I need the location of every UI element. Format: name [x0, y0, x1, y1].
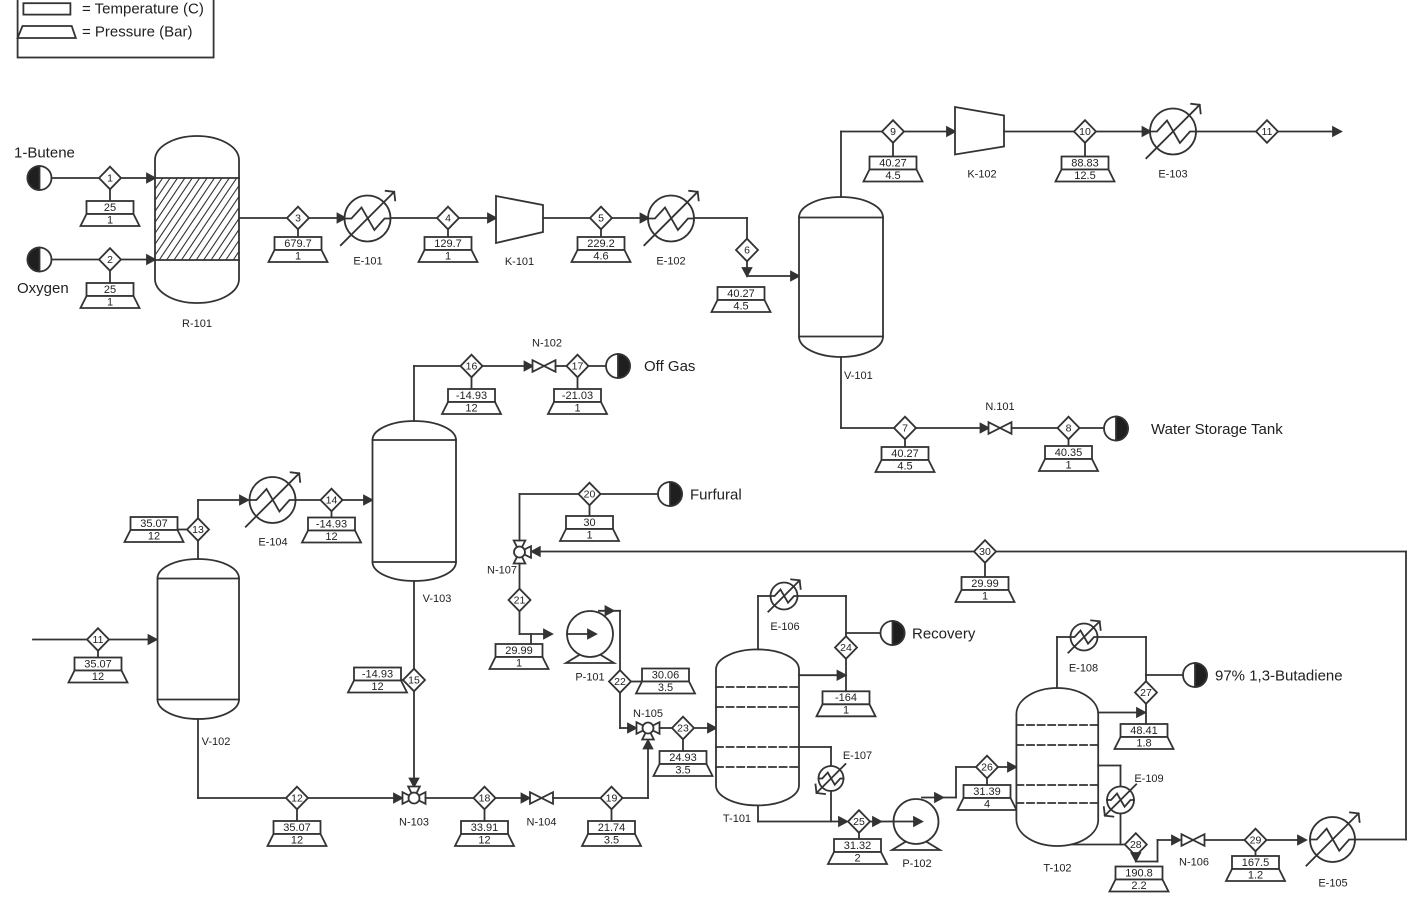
product circle water storage tank	[1104, 417, 1128, 441]
label stream 9	[864, 143, 923, 182]
svg-text:4.5: 4.5	[885, 170, 900, 182]
label E-102	[656, 256, 685, 268]
svg-text:10: 10	[1079, 126, 1091, 138]
label stream 10	[1056, 143, 1115, 182]
svg-text:N-106: N-106	[1179, 857, 1209, 869]
label stream 5	[572, 229, 631, 262]
text Recovery	[912, 626, 976, 643]
svg-text:35.07: 35.07	[140, 518, 168, 530]
svg-text:35.07: 35.07	[84, 658, 112, 670]
stream diamond 14	[321, 489, 343, 512]
stream diamond 22	[609, 670, 631, 693]
label stream 6	[712, 287, 771, 312]
wire N-105 to stream 23	[660, 727, 673, 729]
svg-text:12: 12	[92, 671, 104, 683]
svg-text:V-102: V-102	[202, 736, 231, 748]
svg-text:-14.93: -14.93	[456, 390, 487, 402]
stream diamond 24	[835, 636, 857, 659]
svg-text:12: 12	[291, 793, 303, 805]
label stream 21	[490, 634, 549, 669]
label stream 4	[419, 229, 478, 262]
wire K-101 to stream 5	[543, 217, 591, 219]
wire stream 6 down	[743, 261, 752, 276]
label stream 12	[268, 809, 327, 846]
wire stream 8 to water storage tank	[1079, 427, 1104, 429]
stream diamond 17	[567, 355, 589, 378]
wire N-103 to stream 18	[426, 797, 475, 799]
text Off Gas	[644, 358, 695, 375]
label stream 1	[81, 189, 140, 226]
product circle butadiene	[1183, 663, 1207, 687]
svg-text:2: 2	[107, 254, 113, 266]
svg-text:K-102: K-102	[967, 169, 996, 181]
label stream 15	[348, 668, 407, 693]
svg-text:1.8: 1.8	[1136, 737, 1151, 749]
svg-text:1-Butene: 1-Butene	[14, 145, 75, 162]
stream diamond 23	[672, 717, 694, 740]
stream diamond 25	[848, 810, 870, 833]
heat exchanger E-102	[644, 191, 698, 245]
svg-text:5: 5	[598, 213, 604, 225]
label stream 27	[1115, 724, 1174, 749]
label stream 30	[956, 563, 1015, 603]
label E-107	[843, 750, 872, 762]
svg-text:P-101: P-101	[575, 672, 604, 684]
legend pressure symbol	[18, 26, 76, 38]
stream diamond 4	[437, 207, 459, 230]
label N-106	[1179, 857, 1209, 869]
label stream 24	[817, 691, 876, 716]
wire stream 11 out	[1278, 127, 1342, 136]
wire E-108 to stream 27 line	[1098, 637, 1147, 724]
heat exchanger E-106	[768, 579, 800, 611]
svg-text:31.39: 31.39	[973, 786, 1001, 798]
compressor K-101	[496, 196, 543, 243]
wire stream 25 to P-102	[870, 817, 894, 826]
column T-102	[1016, 688, 1098, 846]
svg-text:V-103: V-103	[423, 593, 452, 605]
label N-102	[532, 338, 562, 350]
label V-103	[423, 593, 452, 605]
label stream 13	[125, 517, 188, 542]
svg-text:4: 4	[445, 213, 451, 225]
svg-text:24: 24	[840, 642, 852, 654]
label E-108	[1069, 663, 1098, 675]
svg-text:88.83: 88.83	[1071, 157, 1099, 169]
svg-text:7: 7	[902, 423, 908, 435]
wire V-101 bottom to stream 7	[841, 357, 895, 428]
svg-text:-14.93: -14.93	[316, 518, 347, 530]
svg-text:1: 1	[982, 590, 988, 602]
svg-text:40.27: 40.27	[727, 288, 755, 300]
wire stream 17 to off gas	[588, 365, 606, 367]
label P-101	[575, 672, 604, 684]
svg-text:-164: -164	[835, 692, 857, 704]
svg-text:12: 12	[478, 834, 490, 846]
product circle recovery	[881, 621, 905, 645]
svg-text:24.93: 24.93	[669, 752, 697, 764]
label N.101	[985, 401, 1014, 413]
label E-109	[1134, 773, 1163, 785]
stream diamond 11	[1256, 120, 1278, 143]
svg-text:129.7: 129.7	[434, 238, 462, 250]
text Furfural	[690, 487, 742, 504]
three-way valve N-107	[514, 541, 531, 564]
stream diamond 2	[99, 248, 121, 271]
product circle furfural	[658, 482, 682, 506]
label E-105	[1318, 878, 1347, 890]
svg-text:33.91: 33.91	[471, 822, 499, 834]
wire T-101 bottom to stream 25	[758, 805, 847, 825]
svg-text:E-101: E-101	[353, 256, 382, 268]
wire valve N-102 to stream 17	[556, 365, 568, 367]
stream diamond 12	[286, 787, 308, 810]
svg-text:Oxygen: Oxygen	[17, 280, 69, 297]
legend temperature text	[82, 1, 204, 18]
svg-text:= Temperature (C): = Temperature (C)	[82, 1, 204, 18]
label stream 7	[876, 439, 935, 472]
product circle off gas	[606, 354, 630, 378]
wire into V-101	[747, 272, 799, 281]
wire stream 30 to N-107	[532, 547, 975, 556]
wire E-109 down to bottoms	[1120, 814, 1122, 845]
svg-text:20: 20	[584, 489, 596, 501]
wire E-107 down to bottoms line	[830, 791, 832, 822]
svg-text:29.99: 29.99	[971, 578, 999, 590]
legend box	[18, 0, 214, 58]
wire K-102 to stream 10	[1004, 131, 1075, 133]
wire V-103 top to stream 16	[414, 366, 461, 421]
svg-text:4: 4	[984, 798, 990, 810]
wire T-102 bottom to stream 28	[1072, 844, 1126, 846]
wire T-101 top to E-106	[758, 596, 770, 649]
svg-text:40.35: 40.35	[1055, 447, 1083, 459]
svg-text:30.06: 30.06	[652, 669, 680, 681]
heat exchanger E-103	[1146, 104, 1200, 158]
heat exchanger E-107	[816, 764, 846, 794]
label T-102	[1043, 863, 1071, 875]
label stream 11b	[69, 651, 128, 683]
svg-text:48.41: 48.41	[1130, 725, 1158, 737]
svg-text:9: 9	[890, 126, 896, 138]
svg-text:1: 1	[107, 214, 113, 226]
valve N-102	[533, 360, 556, 372]
vessel V-102	[158, 559, 240, 719]
wire P-101 outlet to stream 22	[599, 607, 620, 671]
label stream 19	[582, 809, 641, 846]
svg-text:3.5: 3.5	[675, 764, 690, 776]
svg-text:Recovery: Recovery	[912, 626, 976, 643]
stream diamond 9	[882, 120, 904, 143]
wire stream 21 to P-101	[520, 611, 553, 638]
stream diamond 13	[187, 518, 209, 541]
svg-text:23: 23	[677, 723, 689, 735]
heat exchanger E-108	[1068, 620, 1100, 652]
svg-text:28: 28	[1130, 839, 1142, 851]
svg-text:1: 1	[586, 529, 592, 541]
heat exchanger E-109	[1104, 784, 1136, 816]
compressor K-102	[955, 107, 1004, 155]
svg-text:11: 11	[1262, 126, 1273, 138]
label N-103	[399, 817, 429, 829]
svg-text:2: 2	[854, 852, 860, 864]
svg-text:E-102: E-102	[656, 256, 685, 268]
wire stream 28 down and around	[1132, 836, 1180, 862]
svg-text:35.07: 35.07	[283, 822, 311, 834]
wire stream 4 to K-101	[459, 214, 497, 223]
label stream 2	[81, 271, 140, 309]
wire V-101 top to stream 9	[841, 132, 883, 198]
wire E-105 recycle to N-107	[996, 552, 1407, 840]
svg-text:E-105: E-105	[1318, 878, 1347, 890]
stream diamond 27	[1135, 681, 1157, 704]
wire stream 26 to T-102	[998, 763, 1017, 772]
svg-text:-21.03: -21.03	[562, 390, 593, 402]
vessel V-101	[799, 197, 883, 357]
svg-text:13: 13	[192, 524, 204, 536]
svg-text:8: 8	[1066, 423, 1072, 435]
text 97% butadiene	[1215, 668, 1343, 685]
svg-text:N-107: N-107	[487, 565, 517, 577]
heat exchanger E-101	[341, 191, 395, 245]
svg-text:12: 12	[371, 681, 383, 693]
wire stream 14 to V-103	[342, 496, 372, 505]
label V-102	[202, 736, 231, 748]
stream diamond 8	[1058, 417, 1080, 440]
wire T-102 top to E-108	[1057, 637, 1070, 688]
svg-text:2.2: 2.2	[1131, 880, 1146, 892]
wire V-103 bottom to N-103	[410, 581, 419, 787]
label stream 20	[560, 505, 619, 541]
label stream 28	[1110, 867, 1169, 892]
wire stream 3 to E-101	[309, 214, 346, 223]
svg-text:29: 29	[1250, 835, 1262, 847]
stream diamond 19	[601, 787, 623, 810]
label N-104	[527, 817, 557, 829]
wire stream 20 to furfural	[601, 493, 659, 495]
heat exchanger E-105	[1306, 812, 1359, 865]
svg-text:40.27: 40.27	[891, 448, 919, 460]
svg-text:12.5: 12.5	[1074, 170, 1095, 182]
svg-text:29.99: 29.99	[505, 645, 533, 657]
svg-text:25: 25	[104, 284, 116, 296]
svg-text:40.27: 40.27	[879, 157, 907, 169]
wire V-102 top to corner	[198, 496, 248, 559]
stream diamond 26	[976, 756, 998, 779]
wire stream 18 to valve N-104	[495, 794, 530, 803]
svg-text:27: 27	[1140, 687, 1152, 699]
wire recovery branch	[846, 632, 881, 634]
svg-text:K-101: K-101	[505, 256, 534, 268]
wire Oxygen to R-101	[52, 255, 156, 264]
svg-text:1: 1	[295, 250, 301, 262]
stream diamond 11b	[87, 628, 109, 651]
svg-text:1: 1	[1065, 459, 1071, 471]
svg-text:19: 19	[606, 793, 618, 805]
label E-101	[353, 256, 382, 268]
stream diamond 10	[1074, 120, 1096, 143]
svg-text:229.2: 229.2	[587, 238, 615, 250]
label stream 3	[269, 229, 328, 262]
wire E-103 to stream 11	[1196, 131, 1257, 133]
svg-text:17: 17	[572, 361, 584, 373]
wire E-104 to stream 14	[296, 499, 322, 501]
svg-text:167.5: 167.5	[1242, 857, 1270, 869]
stream diamond 3	[287, 207, 309, 230]
svg-text:T-101: T-101	[723, 813, 751, 825]
svg-text:E-103: E-103	[1158, 169, 1187, 181]
valve N-106	[1182, 834, 1205, 846]
svg-text:1.2: 1.2	[1248, 869, 1263, 881]
svg-text:N-105: N-105	[633, 708, 663, 720]
wire E-102 to stream 6 corner	[694, 218, 747, 239]
svg-text:679.7: 679.7	[284, 238, 312, 250]
label N-105	[633, 708, 663, 720]
wire stream 9 to K-102	[904, 127, 956, 136]
valve N-104	[530, 792, 553, 804]
heat exchanger E-104	[246, 472, 300, 526]
svg-text:97% 1,3-Butadiene: 97% 1,3-Butadiene	[1215, 668, 1343, 685]
svg-text:E-108: E-108	[1069, 663, 1098, 675]
valve N.101	[989, 422, 1012, 434]
svg-text:E-109: E-109	[1134, 773, 1163, 785]
svg-text:N.101: N.101	[985, 401, 1014, 413]
svg-text:T-102: T-102	[1043, 863, 1071, 875]
svg-text:21.74: 21.74	[598, 822, 626, 834]
label stream 8	[1039, 439, 1098, 471]
wire stream 22 to N-105	[620, 693, 636, 733]
label stream 17	[548, 377, 607, 414]
svg-text:16: 16	[466, 361, 478, 373]
svg-text:4.6: 4.6	[593, 250, 608, 262]
wire stream 10 to E-103	[1096, 127, 1151, 136]
text 1-Butene	[14, 145, 75, 162]
stream diamond 7	[894, 417, 916, 440]
svg-text:Off Gas: Off Gas	[644, 358, 695, 375]
label K-102	[967, 169, 996, 181]
svg-text:1: 1	[516, 657, 522, 669]
label T-101	[723, 813, 751, 825]
wire stream 29 to E-105	[1266, 836, 1306, 845]
svg-text:30: 30	[979, 546, 991, 558]
svg-text:3.5: 3.5	[658, 682, 673, 694]
svg-text:25: 25	[853, 816, 865, 828]
label K-101	[505, 256, 534, 268]
stream diamond 20	[579, 483, 601, 506]
wire valve N.101 to stream 8	[1012, 427, 1059, 429]
svg-text:12: 12	[148, 530, 160, 542]
svg-text:1: 1	[843, 705, 849, 717]
text Water Storage Tank	[1151, 421, 1283, 438]
feed circle Oxygen	[28, 248, 52, 272]
reactor R-101	[100, 136, 296, 303]
column T-101	[716, 649, 799, 805]
svg-text:Furfural: Furfural	[690, 487, 742, 504]
svg-text:N-103: N-103	[399, 817, 429, 829]
svg-text:1: 1	[107, 173, 113, 185]
three-way valve N-105	[637, 722, 660, 739]
svg-text:1: 1	[107, 296, 113, 308]
stream diamond 18	[474, 787, 496, 810]
label stream 25	[828, 833, 887, 865]
legend pressure text	[82, 24, 192, 41]
svg-text:P-102: P-102	[902, 858, 931, 870]
stream diamond 6	[736, 239, 758, 262]
wire E-101 to stream 4	[391, 217, 438, 219]
label E-104	[258, 537, 287, 549]
svg-text:-14.93: -14.93	[362, 668, 393, 680]
label V-101	[844, 370, 873, 382]
svg-text:12: 12	[325, 531, 337, 543]
svg-text:Water Storage Tank: Water Storage Tank	[1151, 421, 1283, 438]
svg-text:15: 15	[408, 675, 420, 687]
svg-text:21: 21	[514, 595, 526, 607]
svg-text:3: 3	[295, 213, 301, 225]
label R-101	[182, 318, 212, 330]
wire valve N-106 to stream 29	[1205, 839, 1246, 841]
label stream 29	[1226, 851, 1285, 881]
wire T-101 to E-107	[799, 747, 831, 766]
wire stream 5 to E-102	[612, 214, 649, 223]
svg-text:12: 12	[465, 402, 477, 414]
vessel V-103	[373, 421, 457, 581]
stream diamond 1	[99, 167, 121, 190]
stream diamond 5	[590, 207, 612, 230]
label stream 18	[455, 809, 514, 846]
label P-102	[902, 858, 931, 870]
svg-text:22: 22	[614, 676, 626, 688]
label E-106	[770, 621, 799, 633]
svg-text:N-102: N-102	[532, 338, 562, 350]
svg-text:18: 18	[479, 793, 491, 805]
three-way valve N-103	[403, 787, 426, 804]
pump P-102	[892, 799, 940, 850]
wire 1-Butene to R-101	[52, 174, 156, 183]
svg-text:1: 1	[445, 250, 451, 262]
stream diamond 15	[403, 669, 425, 692]
svg-text:12: 12	[291, 834, 303, 846]
stream diamond 16	[461, 355, 483, 378]
svg-text:30: 30	[583, 517, 595, 529]
svg-text:V-101: V-101	[844, 370, 873, 382]
stream diamond 29	[1245, 829, 1267, 852]
stream diamond 21	[509, 589, 531, 612]
wire valve N-104 to stream 19	[553, 797, 601, 799]
svg-text:= Pressure (Bar): = Pressure (Bar)	[82, 24, 192, 41]
svg-text:E-106: E-106	[770, 621, 799, 633]
svg-text:3.5: 3.5	[604, 834, 619, 846]
svg-text:14: 14	[326, 495, 338, 507]
wire T-102 to E-109	[1098, 766, 1120, 787]
svg-text:N-104: N-104	[527, 817, 557, 829]
label stream 23	[654, 739, 713, 776]
svg-text:190.8: 190.8	[1125, 867, 1153, 879]
wire P-102 outlet to stream 26	[922, 767, 977, 802]
svg-text:11: 11	[93, 634, 104, 646]
label N-107	[487, 565, 517, 577]
wire T-102 draw to stream 27	[1098, 708, 1145, 717]
label stream 26	[958, 778, 1017, 810]
wire E-106 to recovery junction	[798, 596, 847, 691]
svg-text:4.5: 4.5	[897, 460, 912, 472]
stream diamond 28	[1125, 833, 1147, 856]
wire N-107 down to stream 21	[519, 564, 521, 590]
label stream 16	[442, 377, 501, 414]
wire stream 23 to T-101	[694, 724, 717, 733]
svg-text:26: 26	[981, 762, 993, 774]
wire N-107 up to furfural corner	[520, 494, 579, 541]
wire feed to stream 11b	[33, 635, 157, 644]
